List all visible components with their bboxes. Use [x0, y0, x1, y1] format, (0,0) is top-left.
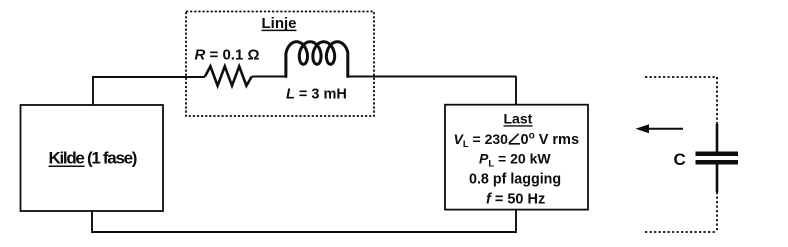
resistor R zigzag: [205, 66, 252, 85]
dashed capacitor branch: top edge: [645, 76, 717, 78]
svg-text:Linje: Linje: [262, 15, 297, 32]
current arrow head: [636, 124, 650, 133]
capacitor C bottom plate: [696, 160, 739, 165]
angle symbol: [509, 134, 520, 144]
svg-text:0o V rms: 0o V rms: [521, 130, 580, 148]
svg-text:Kilde (1 fase): Kilde (1 fase): [49, 149, 137, 168]
wire source top vertical: [92, 77, 94, 105]
wire bottom horizontal: [91, 231, 517, 233]
source box Kilde: [21, 105, 164, 211]
dashed line box Linje: [186, 12, 374, 117]
wire source bottom vertical: [91, 211, 93, 232]
current arrow line: [646, 128, 683, 130]
capacitor C bottom lead: [716, 165, 719, 193]
inductor L coil: [286, 42, 348, 77]
wire top horizontal to resistor: [92, 76, 205, 78]
wire resistor to inductor: [252, 76, 286, 78]
dashed capacitor branch: right edge upper: [716, 77, 718, 124]
underline of Last: [504, 125, 533, 127]
underline of Linje: [262, 29, 297, 31]
wire load top vertical: [515, 76, 517, 105]
svg-text:0.8 pf lagging: 0.8 pf lagging: [469, 172, 561, 188]
dashed capacitor branch: bottom edge: [645, 231, 717, 233]
svg-text:Last: Last: [504, 111, 533, 127]
svg-text:R = 0.1 Ω: R = 0.1 Ω: [195, 47, 260, 64]
wire load bottom vertical: [515, 209, 517, 233]
capacitor C top plate: [696, 152, 739, 157]
load box Last: [445, 105, 588, 210]
svg-text:VL = 230: VL = 230: [454, 131, 509, 150]
underline of Kilde: [49, 165, 85, 167]
svg-text:PL = 20 kW: PL = 20 kW: [479, 151, 551, 170]
svg-text:C: C: [674, 150, 686, 169]
capacitor C top lead: [716, 124, 719, 152]
wire inductor to load corner: [347, 76, 516, 78]
svg-text:f = 50 Hz: f = 50 Hz: [486, 191, 545, 207]
svg-text:L = 3 mH: L = 3 mH: [286, 87, 347, 103]
dashed capacitor branch: right edge lower: [716, 192, 718, 232]
